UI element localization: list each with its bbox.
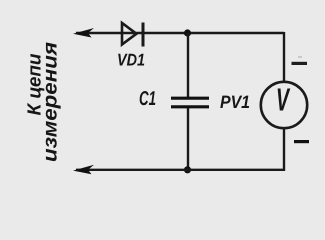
svg-text:PV1: PV1	[220, 92, 250, 112]
node junction top	[184, 29, 191, 36]
svg-text:VD1: VD1	[117, 51, 145, 70]
arrow top (to measurement circuit)	[73, 28, 94, 38]
wire capacitor branch lower	[187, 108, 189, 170]
svg-text:V: V	[276, 81, 291, 117]
diode VD1 triangle	[122, 23, 137, 45]
polarity mark minus (bottom)	[294, 140, 309, 143]
wire capacitor branch upper	[187, 33, 189, 97]
wire top rail	[76, 32, 284, 34]
diode VD1 cathode bar	[142, 23, 145, 47]
polarity mark minus (top)	[292, 62, 308, 65]
svg-text:C1: C1	[139, 88, 156, 110]
wire right rail upper	[283, 32, 285, 83]
svg-text:измерения: измерения	[40, 42, 62, 162]
capacitor C1 top plate	[171, 97, 209, 100]
wire bottom rail	[76, 169, 284, 171]
wire right rail lower	[283, 127, 285, 171]
arrow bottom (to measurement circuit)	[73, 165, 94, 175]
voltmeter PV1 circle	[261, 82, 307, 128]
node junction bottom	[184, 166, 191, 173]
capacitor C1 bottom plate	[171, 105, 209, 108]
